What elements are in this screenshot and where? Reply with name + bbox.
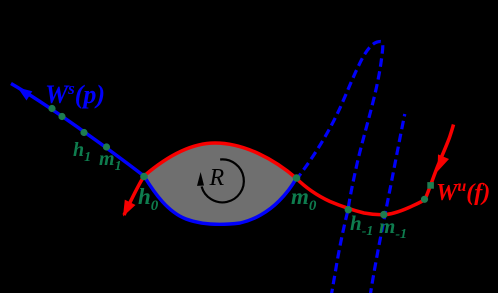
- node h-1 dot: [345, 206, 352, 213]
- wire: unstable manifold W^u(f) red curve: [124, 125, 454, 216]
- node m1 dot: [103, 143, 110, 150]
- svg-text:Ws(p): Ws(p): [45, 79, 105, 109]
- circulation arrow around R (clockwise arc): [202, 159, 244, 202]
- node m0 dot: [293, 174, 301, 182]
- node m-1 dot: [380, 211, 387, 218]
- node dot square on red curve right: [427, 182, 434, 189]
- arrowhead of red curve lower-left (h0 arrow): [123, 200, 136, 217]
- node h0 dot: [140, 173, 148, 181]
- arrowhead of W^s(p) at upper left: [18, 88, 33, 101]
- node dot p-orbit upper 2: [58, 113, 65, 120]
- node dot p-orbit upper 1: [48, 105, 55, 112]
- wire: dashed blue W^s loop from m0 up over peak and down through h-1: [298, 42, 383, 293]
- node dot on red curve lower right: [421, 196, 428, 203]
- region R (gray lobe): [144, 143, 297, 224]
- svg-text:R: R: [209, 165, 225, 191]
- arrowhead on red curve at right (direction arrow): [438, 154, 450, 171]
- wire: dashed blue second descending line through m-1: [370, 114, 405, 293]
- wire: stable manifold W^s(p) solid blue curve: [11, 84, 297, 225]
- node h1 dot: [80, 129, 87, 136]
- arrowhead of circulation arrow: [197, 172, 204, 186]
